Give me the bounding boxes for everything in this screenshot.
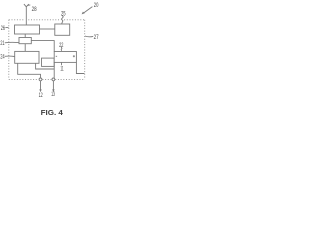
wire battery to housing — [76, 62, 84, 73]
dashed housing border left — [8, 20, 10, 80]
arrow 20 line — [83, 7, 92, 14]
battery minus mark — [56, 55, 57, 57]
arrowhead 13 — [52, 89, 54, 92]
long vertical wire to terminal 13 — [53, 62, 55, 78]
box 21 controller — [19, 38, 31, 44]
zigzag leader 25 — [61, 16, 63, 24]
dashed housing border bottom — [9, 78, 85, 80]
svg-text:22: 22 — [59, 43, 64, 49]
dashed housing border top — [9, 20, 85, 80]
wire box21-box24 — [24, 44, 26, 52]
svg-text:11: 11 — [60, 67, 64, 73]
leader to 28 — [27, 4, 30, 7]
leader 26 — [5, 26, 8, 28]
terminal circle 13 — [52, 78, 55, 81]
wire box26-box21 — [24, 34, 26, 38]
stub below battery node 11 — [61, 62, 63, 65]
leader 21 — [5, 41, 19, 44]
wire box24 to terminal 12 — [18, 63, 41, 78]
svg-text:24: 24 — [0, 54, 5, 60]
svg-text:21: 21 — [0, 41, 5, 47]
svg-text:27: 27 — [94, 35, 99, 41]
svg-text:26: 26 — [1, 26, 6, 32]
svg-text:20: 20 — [94, 3, 99, 9]
box 25 top-right unit — [55, 24, 70, 35]
battery plus mark — [73, 55, 75, 57]
dashed housing border right — [84, 20, 86, 80]
leader 24 — [5, 55, 15, 57]
svg-text:28: 28 — [32, 7, 37, 13]
arrowhead 20 — [82, 12, 85, 15]
svg-text:FIG. 4: FIG. 4 — [41, 108, 63, 117]
svg-text:13: 13 — [51, 92, 55, 98]
wire box26-box25 — [40, 28, 55, 30]
svg-text:12: 12 — [39, 93, 43, 99]
antenna — [24, 4, 29, 25]
arrowhead 12 — [39, 89, 41, 92]
box 24 pulse unit — [15, 51, 39, 63]
box lower-middle unit — [42, 58, 55, 66]
lead line to 13 — [52, 81, 54, 90]
leader 27 — [85, 35, 93, 38]
svg-text:25: 25 — [61, 12, 66, 18]
terminal circle 12 — [39, 78, 42, 81]
wire box21 right to battery top — [31, 41, 54, 52]
wire box24 to long vertical — [36, 63, 55, 69]
lead line to 12 — [40, 81, 42, 90]
box 26 telemetry unit — [15, 25, 40, 34]
battery box 22 — [54, 52, 76, 63]
zigzag leader 22 — [60, 47, 63, 51]
